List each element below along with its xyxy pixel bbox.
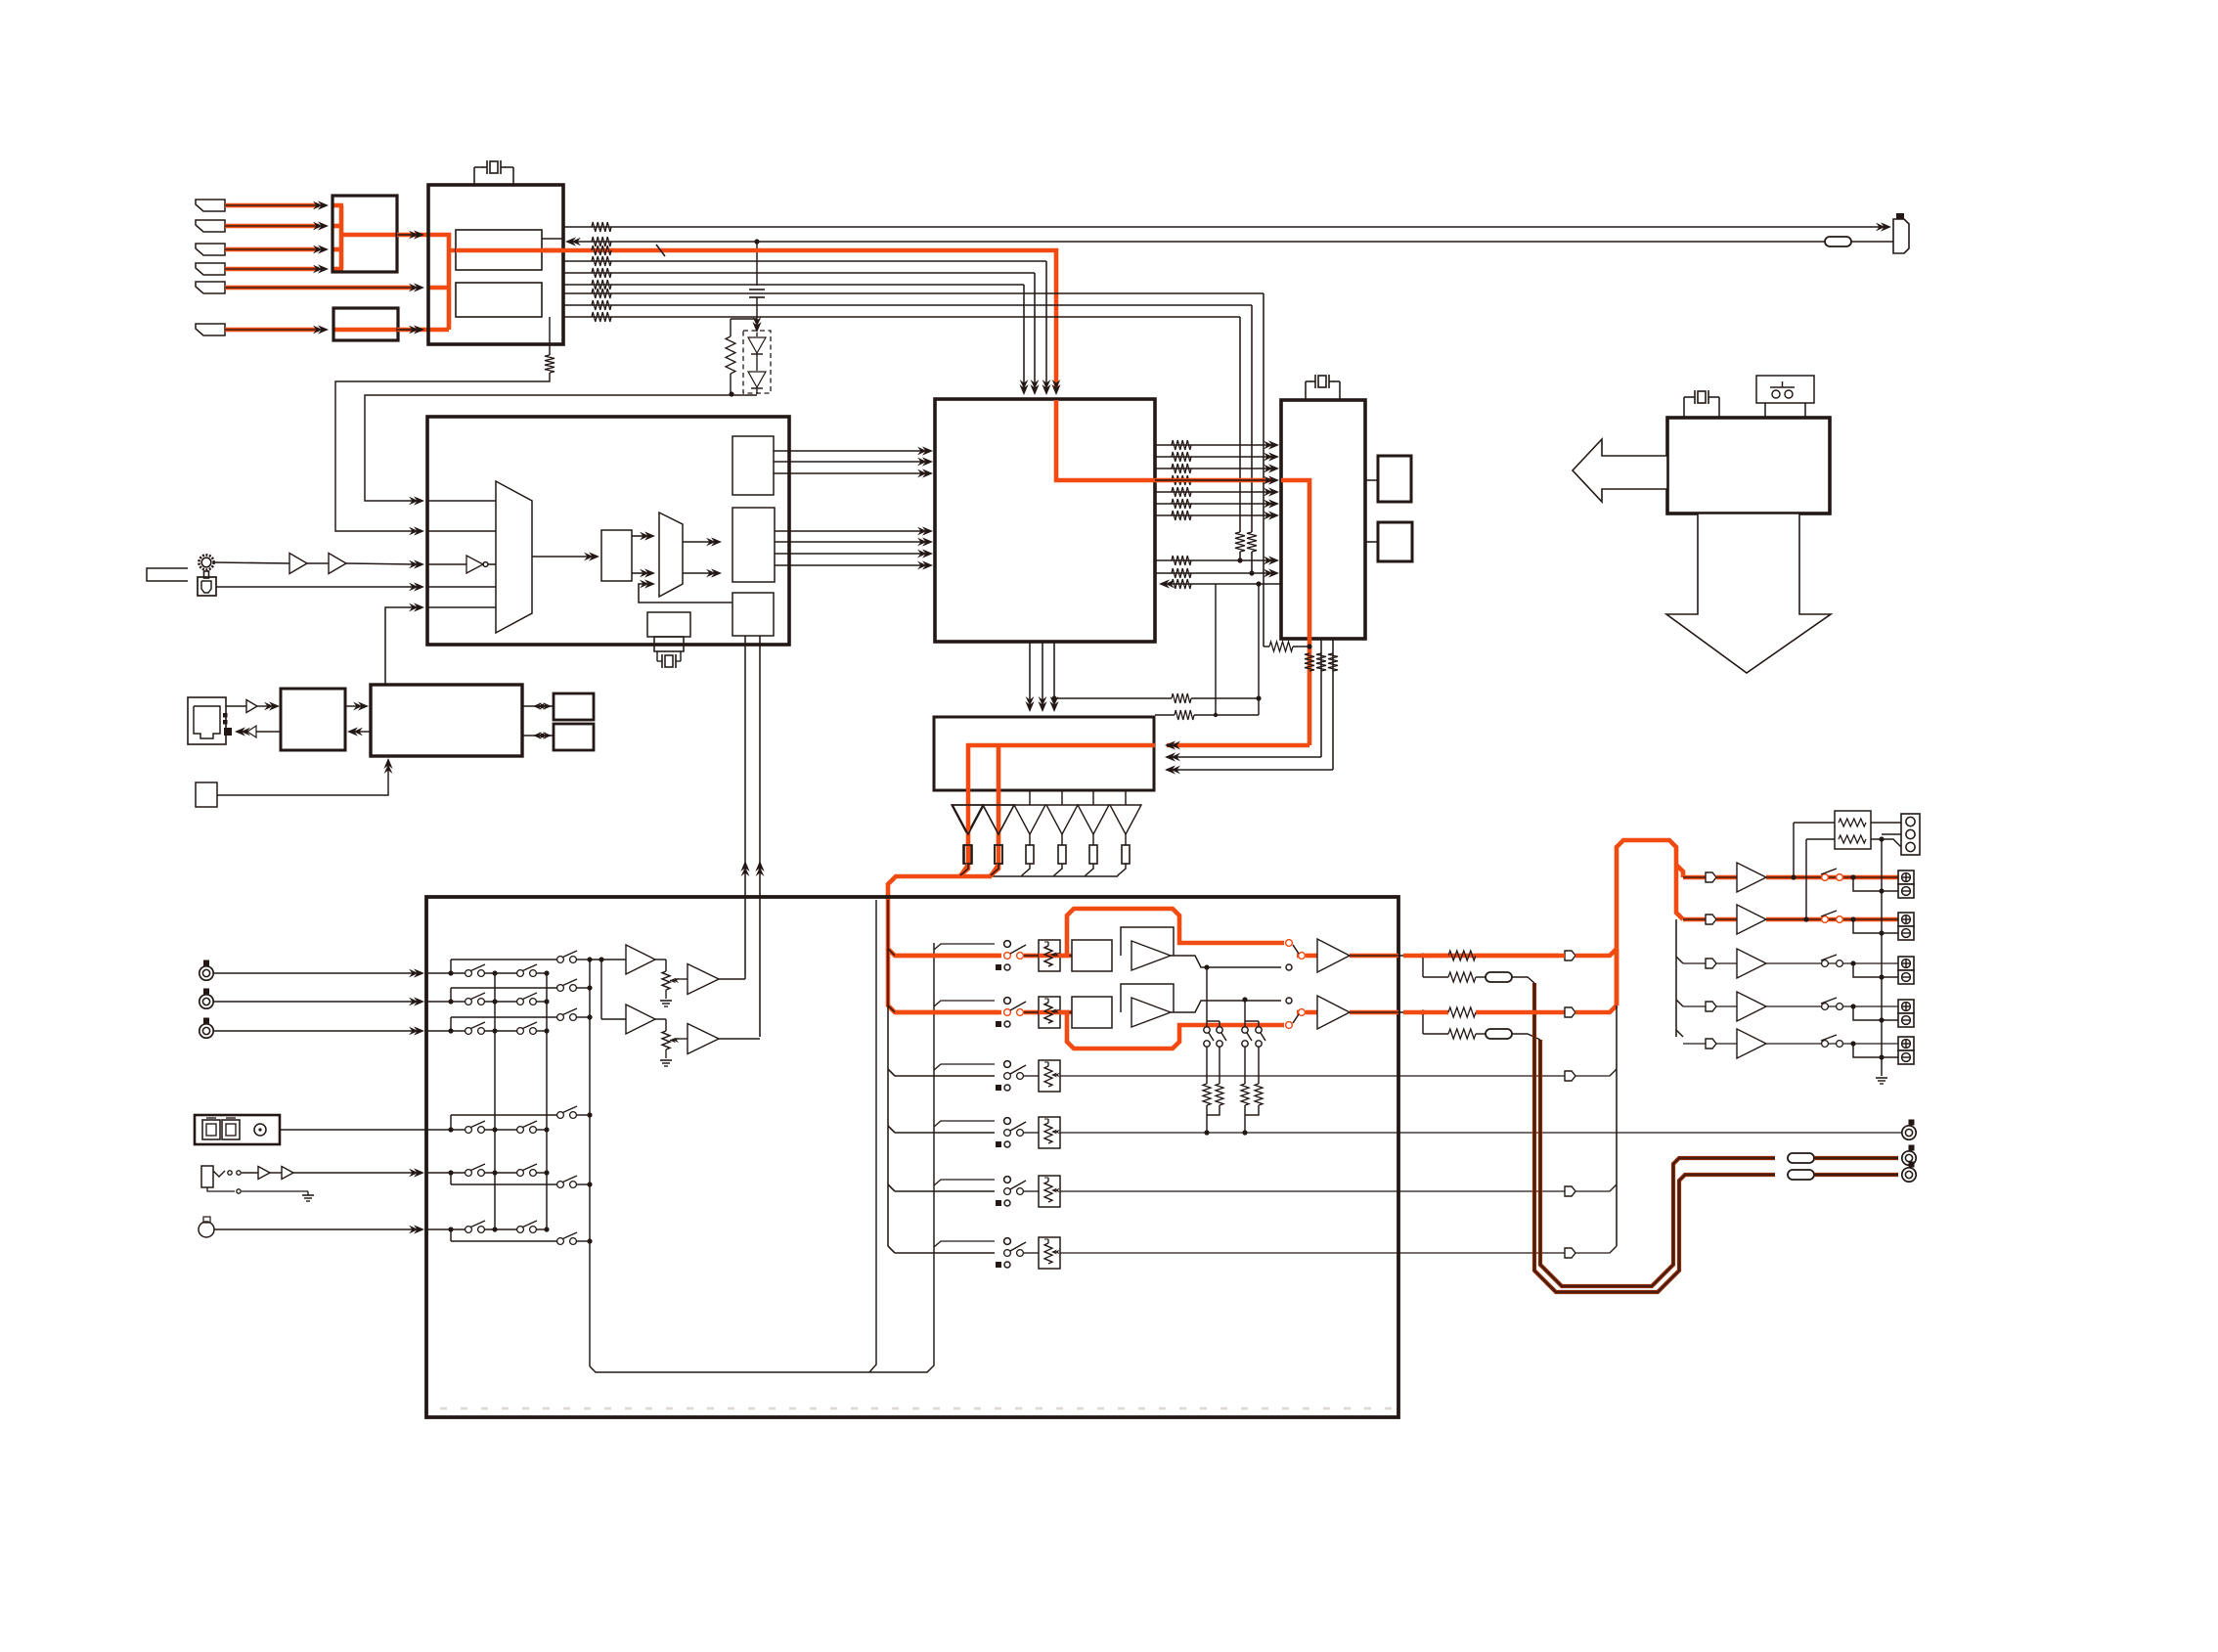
orange trunk riser — [1617, 840, 1683, 1005]
crystal X4 of IC4 — [1305, 381, 1307, 400]
headphone sleeve to ground — [207, 1187, 235, 1191]
wire SB1 to IC1 — [397, 234, 415, 236]
pot after Ta — [655, 959, 666, 960]
row 5 exit — [1060, 1190, 1565, 1192]
wire J5 to IC1 — [225, 286, 415, 290]
wire J2 to SB1 — [225, 224, 319, 229]
block2 digital input selector IC — [427, 417, 789, 645]
tape out row 3 exit — [1060, 1075, 1565, 1077]
block A outputs to IC3 — [774, 450, 923, 452]
B3 aux row 5 — [888, 1184, 895, 1191]
input connector J6 — [196, 324, 225, 335]
Td output to riser — [719, 1038, 760, 1040]
wire mic to B3 — [214, 1228, 415, 1230]
block B outputs to IC3 — [775, 530, 923, 532]
orange path through IC1 register — [456, 248, 563, 253]
soft-clip box row — [1072, 940, 1112, 971]
block B audio interface — [732, 508, 775, 582]
output amp row — [1306, 1010, 1317, 1015]
input connector J3 — [196, 244, 225, 255]
wire SB2 to IC1 — [397, 328, 428, 333]
resistor on RX line — [592, 237, 611, 246]
RCA input jack 2 — [203, 989, 209, 995]
M2 bidirectional memory buses — [522, 705, 554, 707]
vertical from dot597 to resistor line — [1258, 584, 1260, 715]
orange into DAC right — [1167, 743, 1309, 748]
resistor on SPDIF line — [592, 246, 611, 255]
reset block square — [196, 782, 217, 807]
highlight bus inside IC1 — [428, 235, 449, 330]
wire display to B3 — [280, 1129, 426, 1131]
wire optical to selector — [216, 586, 415, 588]
DAC block — [934, 717, 1154, 790]
speaker out row B front R — [1683, 917, 1706, 922]
protection diode D1 — [756, 333, 758, 336]
opamp row triangle — [1131, 941, 1171, 970]
IC5 system control micro — [1667, 418, 1830, 513]
M2 to selector control — [385, 607, 415, 685]
monitor amp Tb — [626, 1005, 655, 1034]
matrix bottom run joins NC bus — [590, 943, 934, 1372]
redraw DAC buffer symbols over orange — [953, 805, 984, 834]
input connector J4 — [196, 263, 225, 275]
remote connector at right edge — [1896, 213, 1904, 221]
orange to RCA preout L — [1814, 1156, 1898, 1160]
muting cluster L channel — [1204, 964, 1209, 969]
record row 4 exit to RCA — [1060, 1132, 1901, 1134]
panel plate connector open bracket — [147, 568, 188, 581]
memory box S2 — [554, 724, 594, 750]
faint ghost row near B3 bottom — [440, 1407, 1394, 1410]
input mux trapezoid — [496, 481, 532, 633]
stub line y731 — [1215, 584, 1217, 715]
IC1 main digital receiver block — [428, 185, 563, 344]
switch matrix row 1 — [426, 972, 466, 974]
switch matrix row 3 — [426, 1030, 466, 1032]
power switch box — [1756, 376, 1814, 403]
headphone jack — [201, 1166, 213, 1187]
orange through DAC buffers — [966, 790, 971, 805]
matrix bus V3 — [589, 960, 591, 1366]
IC1 input line RX from remote connector — [577, 241, 1893, 243]
arrow into IC1 RX — [565, 237, 576, 246]
B3 aux row 3 — [888, 1069, 895, 1076]
input stubs inside selector — [427, 500, 496, 502]
arrow into remote connector — [1881, 222, 1891, 231]
impedance resistor box — [1793, 823, 1795, 877]
capsule preout R — [1788, 1170, 1814, 1180]
switch matrix row 4 — [426, 1129, 466, 1131]
RCA jack preout R — [1909, 1162, 1915, 1168]
matrix bus V2 — [546, 973, 548, 1229]
box SB1 input selector — [333, 196, 397, 272]
speaker out row C — [1683, 962, 1706, 964]
orange bypass loop over — [1060, 909, 1284, 956]
speaker selector terminal block — [1901, 814, 1920, 855]
speaker ground bus — [1881, 839, 1883, 1076]
RCA input jack 3 — [203, 1018, 209, 1024]
highlight bus inside SB1 — [339, 205, 344, 269]
IC4 side box R1 — [1378, 456, 1411, 502]
inverter gate in selector — [427, 563, 466, 565]
monitor amp Ta — [626, 945, 655, 974]
bypass line 1 to monitor amps — [590, 959, 626, 960]
big arrow down to power supply — [1666, 513, 1831, 673]
output amp row — [1306, 954, 1317, 959]
protection diode D2 — [756, 354, 758, 371]
orange branch to row B — [1676, 865, 1683, 919]
risers from analog box to block C — [744, 636, 746, 976]
mic input connector — [203, 1217, 210, 1223]
wire J6 to SB2 — [225, 328, 319, 333]
feedback from block C to mux2 — [639, 584, 732, 603]
wire J3 to SB1 — [225, 247, 319, 252]
Tc output to riser — [719, 978, 745, 980]
IC4 side box R2 — [1378, 522, 1412, 561]
knob connector front input — [199, 555, 213, 569]
vertical resistor pullup B — [1247, 532, 1257, 552]
orange line IC3 to IC4 — [1155, 478, 1271, 483]
junction on RX line — [754, 239, 759, 244]
inner register block B of IC1 — [456, 283, 542, 317]
resistor R-clamp — [731, 318, 757, 320]
input connector J1 — [196, 200, 225, 211]
arrow into protection clamp — [752, 322, 761, 333]
signal bus left inside B3 — [887, 900, 889, 1246]
input connector J5 — [196, 282, 225, 293]
mux output to decoder — [532, 556, 590, 558]
display unit box — [195, 1115, 280, 1144]
block A output interface — [732, 436, 774, 495]
lower control lines IC3-IC4 — [1155, 559, 1271, 561]
slash tick on SPDIF line — [656, 245, 665, 256]
row 6 exit — [1060, 1252, 1565, 1254]
B3 playback row L — [895, 955, 995, 957]
arrow SPDIF into IC3 — [1051, 384, 1060, 395]
ferrite bead on RX line — [1825, 237, 1851, 246]
buffer Tc — [688, 964, 719, 995]
box M1 dock interface — [281, 689, 345, 750]
B3 playback row R — [895, 1011, 995, 1013]
orange path inside DAC — [968, 745, 1155, 790]
crystal circuit of selector — [647, 612, 690, 637]
box M2 system micro — [371, 685, 522, 756]
orange path through IC4 — [1281, 480, 1309, 639]
box SB2 input buffer — [333, 308, 398, 340]
switch matrix row 2 — [426, 1001, 466, 1003]
orange analog bus to main box — [960, 865, 968, 876]
matrix bus V1 — [494, 973, 496, 1229]
crystal X1 of IC1 — [473, 167, 475, 185]
IC3 to IC4 buses with resistors — [1155, 444, 1271, 446]
RCA input jack 1 — [203, 960, 209, 966]
B3 aux row 6 — [888, 1246, 895, 1253]
main orange row L beyond box — [1423, 954, 1559, 959]
orange below IC4 with resistor — [1308, 639, 1312, 745]
crystal X5 — [1683, 397, 1685, 418]
mux2 outputs to block B — [683, 541, 712, 543]
IC1 output lines to IC3 group — [563, 260, 1046, 262]
black trunk lower — [1616, 1005, 1618, 1246]
mux2 trapezoid — [659, 513, 683, 597]
RCA jack rec out — [1909, 1120, 1915, 1126]
resistor link to orange — [1264, 646, 1269, 647]
switch matrix row 6 — [426, 1228, 466, 1230]
buffer Td — [688, 1024, 719, 1054]
speaker out row E — [1683, 1043, 1706, 1045]
vertical resistor pullup A — [1235, 532, 1245, 552]
IC4 digital filter block — [1281, 400, 1365, 639]
wire RX junction down to clamp — [756, 242, 758, 286]
preout branch R — [1420, 1009, 1425, 1014]
headphone buffers — [242, 1172, 258, 1174]
orange bypass loop under — [1060, 1012, 1284, 1049]
speaker out row D — [1683, 1005, 1706, 1007]
opamp row triangle — [1131, 998, 1171, 1027]
orange to RCA preout R — [1814, 1173, 1898, 1177]
capacitor in clamp branch — [749, 289, 765, 290]
RJ45 dock connector — [188, 697, 226, 744]
IC3 outputs down to DAC — [1029, 642, 1031, 702]
input connector J2 — [196, 220, 225, 232]
RCA jack preout L — [1909, 1145, 1915, 1151]
decoder box in selector — [601, 530, 632, 581]
soft-clip box row — [1072, 997, 1112, 1028]
optical TOSLINK connector — [198, 577, 216, 596]
analog bus under DAC — [959, 875, 1118, 877]
junction clamp to bus wire — [729, 391, 733, 396]
feedback loop over opamp — [1121, 984, 1174, 1012]
wire W1 feedback to selector — [335, 373, 550, 531]
main analog board box B3 — [426, 897, 1398, 1417]
black trunk right — [1675, 919, 1677, 1037]
wires M1 to M2 — [345, 705, 359, 707]
B3 aux row 4 — [888, 1126, 895, 1133]
memory box S1 — [554, 693, 594, 720]
branch to monitor amp Tb — [600, 960, 602, 1019]
IC4 outputs down to DAC — [1320, 639, 1322, 757]
wires RCA inputs to B3 — [213, 972, 415, 974]
IC1 output line TX to remote connector — [563, 226, 1880, 228]
IC3 DSP block — [935, 399, 1155, 642]
IC1 aux lines to right resistors — [563, 292, 1264, 294]
speaker out row A front L — [1683, 875, 1706, 880]
dashed box around clamp diodes — [743, 331, 771, 393]
feedback loop over opamp — [1121, 927, 1174, 956]
feedback resistor under IC1 — [549, 317, 551, 355]
orange main SPDIF line IC1 to IC3 — [563, 250, 1056, 390]
resistor on TX line — [592, 222, 611, 232]
DAC output stubs and buffers — [966, 790, 968, 805]
pot after Tb — [655, 1018, 666, 1020]
preout branch L — [1420, 953, 1425, 958]
capsule preout L — [1788, 1153, 1814, 1163]
wire W2 bus to selector — [365, 395, 732, 501]
resistor line y714 — [1054, 697, 1172, 699]
buffer from M1 — [247, 726, 256, 737]
buffer to M1 — [226, 705, 246, 707]
black lines into DAC right — [1167, 756, 1321, 758]
wire reset to M2 — [217, 760, 388, 795]
wire J4 to SB1 — [225, 267, 319, 272]
block C control interface — [732, 593, 774, 636]
orange path through IC3 — [1056, 400, 1155, 480]
dark loop around bottom — [1540, 1040, 1775, 1286]
decoder outputs to mux2 — [632, 535, 645, 537]
inner register block of IC1 — [456, 230, 542, 270]
ground return riser — [869, 900, 876, 1372]
wire J1 to SB1 — [225, 203, 319, 208]
muting cluster R channel — [1242, 997, 1247, 1002]
buffer amp pair on knob line — [214, 562, 289, 563]
switch matrix row 5 — [426, 1172, 466, 1174]
row R to riser — [1398, 1011, 1448, 1013]
wire inner block A to IC1 edge — [542, 238, 563, 240]
big arrow to front panel — [1573, 439, 1667, 502]
highlight inside SB2 — [334, 328, 397, 333]
